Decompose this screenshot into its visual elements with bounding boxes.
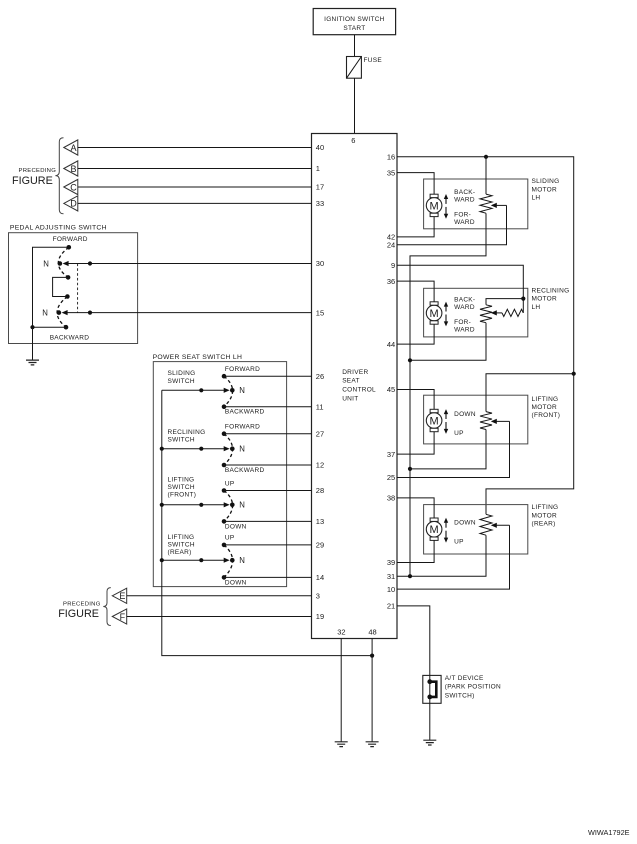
svg-text:25: 25 (387, 473, 395, 482)
wire DOWN contact to control unit (224, 520, 312, 522)
ignition switch box (313, 9, 395, 35)
svg-text:31: 31 (387, 572, 395, 581)
svg-text:WARD: WARD (454, 219, 475, 226)
wire lifting rear wiper to pin 10 (397, 525, 510, 589)
preceding figure label (top) (12, 168, 56, 187)
pedal forward contact (67, 245, 72, 250)
wire A to control unit (78, 147, 312, 149)
svg-text:LIFTING: LIFTING (168, 476, 195, 483)
wire A/T device to ground (429, 703, 431, 740)
wire lifting rear motor bottom to pin 39 (397, 540, 434, 562)
svg-text:RECLINING: RECLINING (168, 429, 206, 436)
svg-text:(PARK POSITION: (PARK POSITION (445, 684, 501, 691)
wire UP contact to control unit (224, 490, 312, 492)
svg-text:M: M (430, 415, 439, 427)
connector C (64, 179, 78, 194)
svg-text:(FRONT): (FRONT) (532, 412, 561, 419)
svg-text:B: B (70, 164, 76, 174)
svg-text:24: 24 (387, 240, 395, 249)
junction bus-lifting rear (160, 558, 164, 562)
connector B (64, 161, 78, 176)
svg-text:15: 15 (316, 308, 324, 317)
wire forward contact to left bus (33, 247, 69, 327)
lifting switch (front) (162, 476, 247, 530)
svg-text:RECLINING: RECLINING (532, 287, 570, 294)
junction left bus (30, 325, 34, 329)
wire sliding wiper to pin 24 (397, 205, 507, 244)
wire pin 21 to A/T device (397, 606, 430, 676)
reclining switch (162, 424, 265, 475)
wire UP contact to control unit (224, 544, 312, 546)
svg-text:33: 33 (316, 199, 324, 208)
svg-text:DOWN: DOWN (225, 579, 247, 586)
wiper pivot dot pole1 / wire to pin 30 (88, 261, 92, 265)
svg-text:PRECEDING: PRECEDING (19, 168, 57, 174)
svg-text:N: N (42, 308, 48, 317)
wire pin 35 to sliding motor top (397, 173, 434, 195)
wire pin 9 to reclining sensor (397, 265, 523, 313)
link middle contacts (53, 277, 69, 296)
svg-text:40: 40 (316, 143, 324, 152)
ground pedal switch (26, 360, 39, 365)
wire DOWN contact to control unit (224, 576, 312, 578)
svg-text:14: 14 (316, 573, 324, 582)
svg-text:FOR-: FOR- (454, 211, 471, 218)
svg-text:37: 37 (387, 450, 395, 459)
A/T device (park position switch) (423, 675, 501, 704)
wire C to control unit (78, 186, 312, 188)
svg-text:WARD: WARD (454, 304, 475, 311)
svg-text:39: 39 (387, 558, 395, 567)
wire sliding pot bottom to return bus (410, 213, 486, 576)
svg-text:17: 17 (316, 183, 324, 192)
svg-text:26: 26 (316, 372, 324, 381)
svg-text:6: 6 (351, 136, 355, 145)
connector A (64, 140, 78, 155)
svg-text:BACKWARD: BACKWARD (225, 409, 265, 416)
svg-text:FORWARD: FORWARD (225, 366, 260, 373)
svg-text:M: M (430, 524, 439, 536)
svg-text:N: N (239, 556, 245, 565)
wire bus to ground (32, 327, 34, 360)
svg-text:START: START (343, 25, 365, 32)
potentiometer (lifting motor (rear)) (480, 514, 492, 535)
wire pin 45 to lifting front motor top (397, 390, 434, 410)
svg-text:LH: LH (532, 195, 541, 202)
junction bus-lifting front (160, 503, 164, 507)
svg-text:21: 21 (387, 602, 395, 611)
svg-text:D: D (70, 199, 77, 209)
svg-text:FUSE: FUSE (364, 57, 383, 64)
svg-text:BACKWARD: BACKWARD (225, 467, 265, 474)
wire D to control unit (78, 202, 312, 204)
wire lifting front motor bottom to pin 37 (397, 432, 434, 454)
junction bus-reclining (160, 447, 164, 451)
connector F (112, 609, 126, 624)
pedal N contact (pole 2) (57, 310, 62, 315)
reclining wiper arrow (492, 312, 502, 314)
wiper arrow pole 1 (67, 263, 311, 265)
name label (reclining motor LH) (532, 287, 570, 310)
svg-text:SWITCH: SWITCH (168, 378, 195, 385)
svg-text:(REAR): (REAR) (168, 549, 192, 556)
svg-text:(FRONT): (FRONT) (168, 491, 197, 498)
sliding wiper arrow (492, 204, 507, 206)
potentiometer (reclining motor LH) (480, 305, 492, 323)
wiper arrow pole 2 (66, 312, 311, 314)
lifting switch (rear) (162, 534, 247, 587)
svg-text:16: 16 (387, 153, 395, 162)
junction return bus (reclining) (408, 358, 412, 362)
supply branch to lifting front pot (486, 374, 574, 412)
svg-text:WARD: WARD (454, 326, 475, 333)
svg-text:DOWN: DOWN (454, 520, 476, 527)
svg-text:SWITCH): SWITCH) (445, 692, 475, 699)
wire sliding motor bottom to pin 42 (397, 217, 434, 237)
svg-text:SLIDING: SLIDING (168, 370, 196, 377)
wire reclining pot bottom to return bus (410, 323, 486, 361)
series resistor reclining sensor (502, 309, 523, 316)
svg-text:CONTROL: CONTROL (342, 387, 376, 394)
wire E to control unit (127, 595, 312, 597)
svg-text:10: 10 (387, 585, 395, 594)
ground pin 32 (335, 742, 348, 747)
svg-text:28: 28 (316, 486, 324, 495)
wire fuse to control unit pin 6 (354, 78, 356, 133)
svg-text:UP: UP (454, 430, 464, 437)
svg-text:36: 36 (387, 277, 395, 286)
svg-text:DOWN: DOWN (225, 523, 247, 530)
svg-text:29: 29 (316, 541, 324, 550)
wire junction to reclining pot top (486, 299, 523, 305)
svg-text:WARD: WARD (454, 196, 475, 203)
mechanical link (dashed) (77, 264, 79, 313)
svg-text:SLIDING: SLIDING (532, 178, 560, 185)
wire backward contact to left bus (33, 326, 67, 328)
wiper arc pole 2 (57, 297, 67, 328)
wire pin 31 to rear pot bottom (397, 535, 486, 576)
svg-text:1: 1 (316, 164, 320, 173)
power seat switch LH box (153, 354, 287, 586)
svg-text:LIFTING: LIFTING (532, 396, 559, 403)
preceding figure label (bottom) (58, 602, 101, 621)
svg-text:27: 27 (316, 429, 324, 438)
svg-text:A: A (70, 143, 76, 153)
svg-text:SWITCH: SWITCH (168, 437, 195, 444)
fuse (347, 57, 383, 79)
svg-text:UP: UP (454, 539, 464, 546)
svg-text:FIGURE: FIGURE (58, 608, 99, 620)
svg-text:DRIVER: DRIVER (342, 369, 368, 376)
svg-text:M: M (430, 200, 439, 212)
connector D (64, 196, 78, 211)
wire BACKWARD contact to control unit (224, 406, 312, 408)
svg-text:FORWARD: FORWARD (53, 236, 88, 243)
svg-text:13: 13 (316, 517, 324, 526)
svg-text:POWER SEAT SWITCH LH: POWER SEAT SWITCH LH (153, 354, 243, 361)
svg-text:LH: LH (532, 304, 541, 311)
svg-text:N: N (239, 501, 245, 510)
wire FORWARD contact to control unit (224, 375, 312, 377)
wire pin 36 to reclining motor top (397, 281, 434, 302)
svg-text:MOTOR: MOTOR (532, 512, 557, 519)
svg-text:45: 45 (387, 385, 395, 394)
svg-text:35: 35 (387, 168, 395, 177)
svg-text:A/T DEVICE: A/T DEVICE (445, 675, 484, 682)
svg-text:E: E (119, 591, 125, 601)
wire pin 48 to ground (371, 639, 373, 742)
svg-text:SWITCH: SWITCH (168, 541, 195, 548)
switch common bus (162, 390, 372, 655)
brace for connectors E-F (103, 588, 111, 626)
lifting motor (front) (424, 395, 528, 444)
pedal N contact (pole 1) (58, 261, 63, 266)
wiper pivot dot pole2 / wire to pin 15 (88, 311, 92, 315)
svg-text:SEAT: SEAT (342, 378, 360, 385)
svg-text:WIWA1792E: WIWA1792E (588, 828, 630, 837)
wire lifting front pot bottom to return bus (410, 430, 486, 469)
lifting front wiper arrow (492, 420, 510, 422)
svg-text:BACKWARD: BACKWARD (50, 335, 90, 342)
svg-text:FIGURE: FIGURE (12, 175, 53, 187)
wire lifting front wiper to pin 25 (397, 421, 510, 477)
brace for connectors A-D (55, 138, 63, 214)
wire pin 16 supply (397, 157, 574, 515)
wire B to control unit (78, 168, 312, 170)
svg-text:PRECEDING: PRECEDING (63, 602, 101, 608)
driver seat control unit U1 (312, 134, 398, 639)
svg-text:IGNITION SWITCH: IGNITION SWITCH (324, 16, 385, 23)
junction pin16-sliding pot (484, 155, 488, 159)
svg-text:38: 38 (387, 494, 395, 503)
svg-text:30: 30 (316, 259, 324, 268)
svg-text:C: C (70, 182, 77, 192)
pedal middle contact 1 (66, 275, 71, 280)
ground A/T device (423, 740, 436, 745)
svg-text:N: N (239, 445, 245, 454)
svg-text:BACK-: BACK- (454, 296, 475, 303)
sliding switch (162, 366, 265, 416)
lifting rear wiper arrow (492, 524, 510, 526)
potentiometer (sliding motor LH) (480, 194, 492, 213)
svg-text:FORWARD: FORWARD (225, 424, 260, 431)
svg-text:LIFTING: LIFTING (532, 504, 559, 511)
svg-text:DOWN: DOWN (454, 411, 476, 418)
svg-text:LIFTING: LIFTING (168, 534, 195, 541)
svg-text:32: 32 (337, 627, 345, 636)
svg-text:19: 19 (316, 612, 324, 621)
junction reclining sensor (521, 297, 525, 301)
wire reclining motor bottom to pin 44 (397, 324, 434, 344)
svg-text:N: N (43, 259, 49, 268)
pedal middle contact 2 (65, 294, 70, 299)
wire pin 38 to lifting rear motor top (397, 498, 434, 518)
svg-text:9: 9 (391, 261, 395, 270)
wire pin 32 to ground (340, 639, 342, 742)
pedal backward contact (64, 325, 69, 330)
junction bus to pin 48 wire (370, 654, 374, 658)
svg-text:MOTOR: MOTOR (532, 404, 557, 411)
junction return bus (front) (408, 467, 412, 471)
sliding motor LH (424, 179, 528, 229)
potentiometer (lifting motor (front)) (480, 412, 492, 430)
wire sliding pot top to pin16 line (485, 157, 487, 194)
svg-text:MOTOR: MOTOR (532, 296, 557, 303)
svg-text:BACK-: BACK- (454, 189, 475, 196)
svg-text:44: 44 (387, 340, 395, 349)
svg-text:M: M (430, 308, 439, 320)
svg-text:12: 12 (316, 461, 324, 470)
wire F to control unit (127, 616, 312, 618)
wire ignition to fuse (354, 35, 356, 57)
connector E (112, 588, 126, 603)
wiper arc pole 1 (58, 247, 68, 277)
lifting motor (rear) (424, 505, 528, 554)
svg-text:UP: UP (225, 480, 235, 487)
name label (sliding motor LH) (532, 178, 560, 201)
svg-text:SWITCH: SWITCH (168, 484, 195, 491)
svg-text:UNIT: UNIT (342, 395, 358, 402)
svg-text:MOTOR: MOTOR (532, 186, 557, 193)
junction return bus (pin 31) (408, 574, 412, 578)
ground pin 48 (366, 742, 379, 747)
svg-text:(REAR): (REAR) (532, 521, 556, 528)
svg-text:PEDAL ADJUSTING SWITCH: PEDAL ADJUSTING SWITCH (10, 224, 107, 231)
svg-text:N: N (239, 386, 245, 395)
pedal adjusting switch box (9, 224, 138, 343)
svg-text:11: 11 (316, 402, 324, 411)
svg-text:FOR-: FOR- (454, 319, 471, 326)
name label (lifting motor (front)) (532, 396, 561, 419)
name label (lifting motor (rear)) (532, 504, 559, 527)
svg-text:48: 48 (368, 627, 376, 636)
wire BACKWARD contact to control unit (224, 464, 312, 466)
wire FORWARD contact to control unit (224, 433, 312, 435)
svg-text:UP: UP (225, 535, 235, 542)
junction supply branch (572, 372, 576, 376)
svg-text:3: 3 (316, 592, 320, 601)
svg-text:F: F (120, 612, 126, 622)
reclining motor LH (424, 288, 528, 337)
